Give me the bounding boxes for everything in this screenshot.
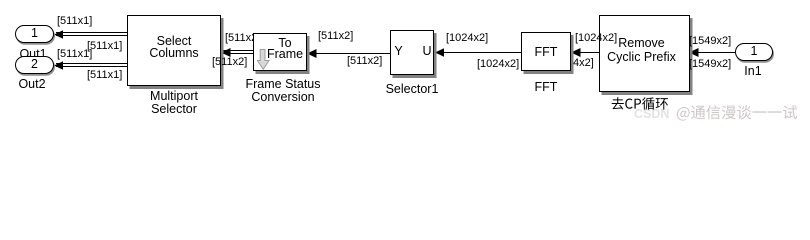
wire: Remove Cyclic Prefix -> FFT: [572, 52, 599, 53]
wire: In1 -> Remove Cyclic Prefix: [690, 52, 735, 53]
wire: Selector1 -> To Frame: [309, 53, 391, 54]
output port Out2 (oval "2"): [15, 56, 54, 74]
block: FFT: [521, 32, 571, 71]
port letter Y: [393, 45, 405, 58]
watermark @通信漫谈一一试 (CJK as SVG): [676, 105, 801, 122]
signal dim label [1024x2] (line5, src end): [477, 59, 519, 70]
block: Multiport Selector "Select Columns": [127, 15, 221, 86]
signal dim label [1024x2] clipped to "4x2]" (line6, src end): [573, 58, 594, 69]
block annotation "去CP循环" (CJK as SVG): [611, 98, 673, 111]
block label "Multiport Selector": [124, 90, 224, 116]
signal dim label [1549x2] (line7, src end): [689, 59, 731, 70]
port letter U: [421, 45, 433, 58]
wire: FFT -> Selector1: [436, 52, 521, 53]
label In1: [723, 65, 783, 78]
signal dim label [511x2] (line4, dest end): [318, 31, 353, 42]
signal dim label [511x1] (line1, dest end): [57, 16, 92, 27]
output port Out1 (oval "1"): [15, 25, 54, 43]
block label "FFT": [521, 81, 571, 94]
block: Frame Status Conversion "To Frame": [253, 33, 307, 71]
wire: Multiport Selector out1 -> Out1 (double/frame line): [56, 32, 127, 36]
input port In1 (oval "1"): [735, 43, 773, 61]
block label "Selector1": [372, 83, 452, 96]
watermark CSDN: [634, 108, 669, 121]
label Out2: [2, 78, 62, 91]
wire: To Frame -> Multiport Selector (double/frame line): [222, 50, 253, 54]
block: Remove Cyclic Prefix: [599, 15, 690, 92]
signal dim label [511x1] (line2, dest end): [57, 49, 92, 60]
signal dim label [511x1] (line2, src end): [87, 70, 122, 81]
label Out1: [3, 48, 63, 61]
signal dim label [1024x2] (line5, dest end): [446, 33, 488, 44]
signal dim label [511x2] clipped to "[511x" (line3, dest end): [225, 33, 260, 44]
gray down-arrow icon inside To Frame: [257, 49, 270, 70]
signal dim label [511x2] (line4, src end): [347, 56, 382, 67]
block: Selector1 (Y / U): [390, 30, 434, 75]
signal dim label [511x1] (line1, src end): [87, 41, 122, 52]
signal dim label [1024x2] (line6, dest end, over block): [575, 33, 617, 44]
signal dim label [1549x2] (line7, dest end): [689, 36, 731, 47]
wire: Multiport Selector out2 -> Out2 (double/frame line): [56, 63, 127, 67]
block label "Frame Status Conversion": [233, 78, 333, 104]
signal dim label [511x2] (line3, src end): [212, 57, 247, 68]
